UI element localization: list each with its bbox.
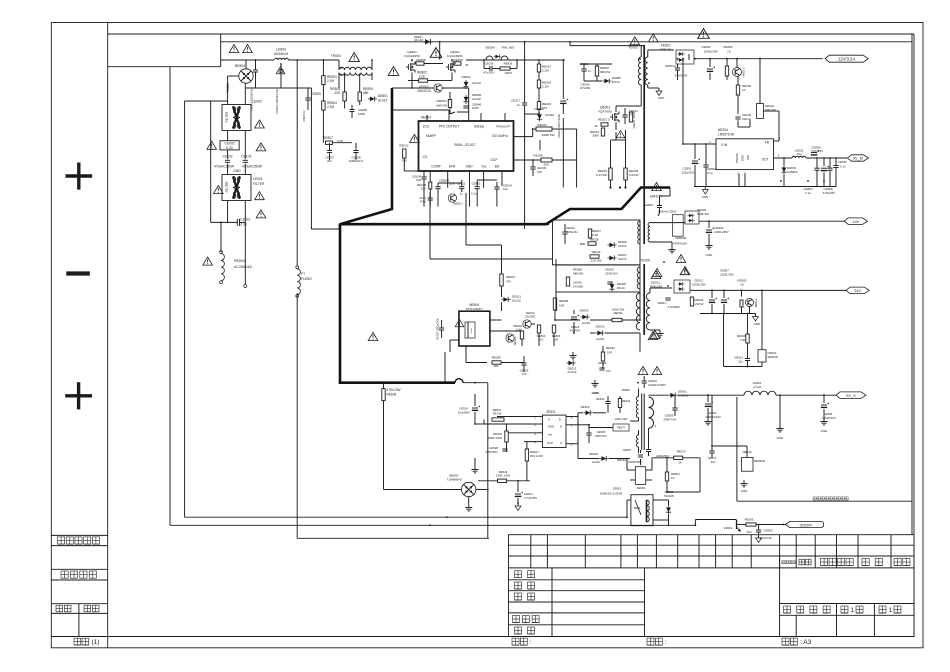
svg-text:AL002: AL002: [596, 337, 605, 341]
warning triangle CE002 left: [207, 141, 217, 149]
wire TE002 secondary to DE501: [648, 49, 674, 51]
diode DE817 RC-36 on B+ rail: [423, 39, 433, 45]
ground 14V transformer: [671, 242, 673, 246]
svg-text:AL01Z: AL01Z: [472, 97, 481, 101]
svg-text:47K: 47K: [506, 280, 511, 284]
svg-text:3300/250V: 3300/250V: [628, 460, 642, 464]
wire AC bottom bus 1: [185, 516, 627, 518]
svg-text:AL02Z: AL02Z: [582, 321, 591, 325]
capacitor CE102: [225, 159, 230, 161]
note 高电平工作 低电平待机 tiny: [813, 497, 816, 500]
bottom strip label 描图:: [647, 638, 654, 645]
capacitor CE001 0.33: [236, 219, 238, 226]
capacitor CE009 100: [421, 176, 426, 178]
svg-text:100: 100: [416, 178, 421, 182]
warning triangle RE012: [410, 134, 420, 142]
diode DE523 EU2A: [599, 456, 608, 461]
svg-text:TE005: TE005: [641, 259, 651, 263]
wire 24V sub bottom: [723, 314, 725, 367]
capacitor CE553 0.1u: [814, 167, 819, 169]
svg-text:IN4148: IN4148: [664, 494, 674, 498]
svg-text:CE025: CE025: [598, 361, 607, 365]
svg-text:Vcc: Vcc: [481, 165, 487, 169]
svg-text:LE803: LE803: [276, 48, 286, 52]
svg-text:LM2576-50: LM2576-50: [718, 133, 734, 137]
svg-text:220n: 220n: [742, 117, 749, 121]
svg-text:2.2M: 2.2M: [542, 84, 549, 88]
capacitor CE807 33n: [327, 150, 332, 152]
svg-text:RE807: RE807: [323, 136, 333, 140]
resistor RE808: [416, 62, 424, 65]
regulator NE510 RE565N: [742, 457, 754, 471]
capacitor CE565 10uF/16V: [756, 529, 761, 531]
capacitor CE045 100: [530, 166, 535, 168]
svg-text:TR004: TR004: [331, 54, 341, 58]
resistor RE816 100W: [500, 67, 510, 70]
svg-text:150K 1/2W: 150K 1/2W: [496, 474, 511, 478]
wire long vertical x524: [524, 42, 526, 103]
svg-text:CE819 450V/150u: CE819 450V/150u: [557, 114, 561, 138]
bottom strip label 幅面: A3: [782, 638, 789, 645]
opto ZE504: [635, 467, 645, 485]
resistor RE522: [618, 399, 621, 408]
wire 12V to regulator NE304: [682, 59, 684, 144]
capacitor CE563 33KF/1KV: [672, 407, 677, 409]
svg-text:12V/3.5A: 12V/3.5A: [838, 56, 855, 61]
diode DE561 1N5822: [668, 393, 677, 398]
svg-text:DD OutPut: DD OutPut: [492, 134, 508, 138]
svg-text:DE523: DE523: [589, 452, 598, 456]
diode DE009 AL02Z: [580, 314, 589, 319]
svg-text:PFMO/VP: PFMO/VP: [496, 125, 510, 129]
svg-text:FILTER: FILTER: [225, 181, 229, 192]
svg-text:22K: 22K: [334, 91, 341, 95]
left column box 旧底图总号: [51, 534, 107, 536]
capacitor CE808 100WVAu7: [353, 150, 358, 152]
resistor RE502 1K: [725, 66, 728, 76]
title block label 审核: [515, 582, 522, 589]
tag 5V_S output: [836, 392, 866, 399]
wire long vertical x576: [576, 129, 578, 188]
svg-text:RE565N: RE565N: [754, 459, 765, 463]
svg-text:33KF/1KV: 33KF/1KV: [663, 417, 676, 421]
title block label 批准: [515, 627, 522, 634]
svg-text:680R 1/4W: 680R 1/4W: [488, 436, 503, 440]
wire DE523 row: [577, 444, 579, 459]
capacitor CE502 2200u/35V: [707, 68, 713, 70]
capacitor C011 470n: [428, 197, 433, 199]
capacitor CE805 200/0.1n: [305, 97, 310, 99]
svg-text:100P: 100P: [358, 112, 365, 116]
resistor RE837 47K: [500, 274, 503, 286]
svg-text:2SA1213: 2SA1213: [417, 89, 431, 93]
ground CE565 arrow: [758, 535, 760, 538]
resistor RE503 1K: [736, 85, 739, 95]
diode DE802 AL01Z: [463, 80, 468, 89]
wire loop top-left notch: [220, 34, 222, 67]
svg-text:1K: 1K: [740, 283, 744, 287]
transistor N802-1: [448, 194, 456, 202]
opto N801-1: [506, 334, 514, 342]
resistor RE802 103K: [419, 79, 428, 82]
svg-text:VE561: VE561: [724, 526, 733, 530]
svg-text:CE805: CE805: [311, 92, 321, 96]
svg-text:RE090: RE090: [537, 123, 547, 127]
wire 5VS rail to inductor: [678, 394, 744, 396]
svg-text:33: 33: [465, 63, 469, 67]
capacitor CE013 0.1u: [475, 186, 480, 188]
wire QE003 drain to TE002: [615, 106, 617, 112]
resistor RE018 2.2M: [537, 80, 540, 88]
svg-text:RE809: RE809: [453, 58, 463, 62]
svg-text:CE012: CE012: [457, 182, 466, 186]
resistor RE820 68K/2W: [595, 66, 598, 76]
svg-text:22n: 22n: [738, 359, 743, 363]
svg-text:168/0.5W: 168/0.5W: [542, 133, 555, 137]
resistor RE834 2K2: [537, 325, 540, 333]
svg-text:RE565: RE565: [745, 518, 754, 522]
resistor RE524 150K 1/2W: [498, 479, 507, 482]
svg-text:470/280V: 470/280V: [668, 305, 680, 309]
capacitor CE804 450WV3.9u: [278, 69, 283, 71]
svg-text:RE098: RE098: [492, 356, 501, 360]
svg-text:68K/2W: 68K/2W: [573, 272, 584, 276]
regulator NE502 S8024N: [758, 350, 766, 362]
svg-text:1K: 1K: [671, 476, 675, 480]
svg-text:NE304: NE304: [718, 128, 728, 132]
svg-text:SAFETY: SAFETY: [650, 195, 663, 199]
resistor RE565 3K3: [746, 523, 756, 526]
svg-text:N802-1: N802-1: [453, 202, 463, 206]
wire AC vertical right: [244, 84, 246, 105]
svg-text:2.2M: 2.2M: [327, 79, 334, 83]
svg-text:ZCD: ZCD: [423, 125, 430, 129]
resistors RE026 RE025 to bus: [609, 168, 612, 180]
inductor LE561 4.7uH: [744, 391, 776, 395]
diode DE522: [583, 410, 592, 415]
svg-text:T1WB6040: T1WB6040: [446, 477, 461, 481]
svg-text:22n: 22n: [711, 460, 716, 464]
svg-text:TE002: TE002: [628, 46, 638, 50]
resistor RE091 100/0.5W: [612, 318, 622, 321]
svg-text:AL01Z: AL01Z: [618, 244, 627, 248]
svg-text:100WVAu7: 100WVAu7: [349, 159, 364, 163]
svg-text:2.2M: 2.2M: [327, 105, 334, 109]
wire loop vertical x170: [169, 67, 171, 526]
wire rail link: [439, 42, 441, 59]
resistor RE806 56K: [358, 92, 361, 101]
svg-text:1K: 1K: [727, 50, 731, 54]
ground mid standby: [474, 466, 476, 470]
svg-text:CE804: CE804: [644, 203, 654, 207]
tag ONOFF: [785, 521, 823, 527]
resistor RE575 100R 1/4W: [613, 424, 629, 431]
warning triangle QE001 mid: [430, 48, 442, 58]
svg-text:1N5822: 1N5822: [787, 170, 798, 174]
svg-text:DE009: DE009: [580, 309, 589, 313]
diode DE012 AL0GZ: [566, 360, 575, 365]
mosfet QE001 FQA24N50: [410, 63, 412, 71]
svg-text:2200u/35V: 2200u/35V: [714, 230, 729, 234]
svg-text:470/280V: 470/280V: [675, 74, 688, 78]
svg-text:F?: F?: [301, 272, 305, 276]
svg-text:2SC945: 2SC945: [525, 315, 536, 319]
diode DE551 1N5822: [781, 165, 786, 174]
svg-text:CE522: CE522: [596, 397, 605, 401]
warning triangles above bridge: [229, 45, 239, 53]
svg-text:RE022 G: RE022 G: [598, 118, 611, 122]
wire VE561 feed: [695, 519, 736, 521]
wire CE571 stub: [711, 395, 713, 446]
wire y101 to filter: [185, 100, 228, 102]
svg-text:RE8041: RE8041: [437, 99, 448, 103]
svg-text:CE027 680p/2KV: CE027 680p/2KV: [436, 318, 440, 340]
svg-text::: :: [530, 639, 532, 646]
svg-text:RE029: RE029: [592, 250, 601, 254]
bridge rectifier BE802 T1WB6040: [462, 482, 476, 496]
svg-text:CE503M: CE503M: [675, 236, 687, 240]
svg-text:(1): (1): [92, 639, 100, 646]
svg-text:GND: GND: [702, 195, 710, 199]
ground LE561: [779, 425, 781, 429]
warning triangle NE806 left: [368, 333, 378, 341]
wire B+ rail top: [221, 41, 912, 43]
wire PFC input rail: [221, 59, 246, 61]
wire NE801 to bus: [668, 519, 670, 525]
filter choke LE001: [222, 175, 251, 201]
ground CE521: [517, 503, 519, 506]
warning triangle safety barrier: [652, 183, 662, 191]
registration mark plus top: [77, 163, 80, 190]
wires mosfet stage: [392, 87, 434, 89]
transformer 24V windings: [636, 293, 640, 330]
svg-text:FML-36S: FML-36S: [502, 46, 515, 50]
ground 24V arrow: [755, 314, 757, 317]
resistor RE835 10K: [553, 298, 556, 310]
svg-text:GND: GND: [821, 429, 829, 433]
bridge rectifier BE804: [239, 69, 253, 83]
capacitor CE571 22n: [709, 450, 714, 452]
svg-text:FMB-26M: FMB-26M: [650, 285, 663, 289]
svg-text:2200L/35V: 2200L/35V: [692, 283, 706, 287]
svg-text:4.7uF/55V: 4.7uF/55V: [524, 496, 537, 500]
capacitor CE846 100P: [463, 105, 468, 107]
svg-text:MultFP: MultFP: [426, 134, 436, 138]
wire IC bottom pin stubs: [429, 171, 431, 182]
ground CE564: [823, 418, 825, 422]
svg-text:33n: 33n: [327, 159, 332, 163]
wire AC left leg inner: [210, 101, 212, 222]
svg-text:DFR: DFR: [449, 165, 456, 169]
resistor RE561 1K: [665, 472, 668, 481]
wire bus drop to bridge BE802: [487, 383, 489, 539]
inner frame top border: [108, 33, 914, 35]
svg-text:0.22: 0.22: [226, 146, 233, 150]
wire QE003 source: [615, 132, 617, 140]
svg-text:D: D: [560, 425, 562, 429]
svg-text:Startup: Startup: [474, 125, 485, 129]
svg-text:Vin: Vin: [548, 433, 553, 437]
svg-text:STR-W9667: STR-W9667: [466, 307, 483, 311]
resistor RE029 22/0.5W: [590, 255, 599, 258]
svg-text:47K: 47K: [542, 106, 547, 110]
title block label 拟制: [515, 571, 522, 578]
resistor RE527 3K3 1/4W: [525, 449, 528, 461]
svg-text:RE006: RE006: [533, 154, 543, 158]
capacitor CE103: [243, 159, 248, 161]
svg-text:220u/25V: 220u/25V: [682, 171, 694, 175]
resistor RE806b 10K: [552, 325, 555, 333]
fuse RE804 AC250V4A: [221, 254, 224, 281]
svg-text:JE801: JE801: [613, 487, 622, 491]
svg-text:200/0.1n: 200/0.1n: [302, 110, 306, 122]
resistor RE032 10K: [601, 352, 604, 361]
svg-text:FMB-26L: FMB-26L: [660, 48, 673, 52]
svg-text:2.2M: 2.2M: [542, 68, 549, 72]
wire IC top pins: [426, 115, 428, 121]
resistor RE015 10K: [429, 182, 432, 189]
wire mid vertical bus b: [465, 193, 467, 245]
svg-text:CS: CS: [423, 155, 427, 159]
svg-text:1u: 1u: [459, 192, 463, 196]
wire FB loop: [763, 110, 779, 112]
transformer TE006 primary windings: [636, 397, 638, 418]
wire fuse drop: [296, 60, 298, 266]
capacitor CE820 1n: [581, 68, 586, 70]
svg-text:DE004: DE004: [485, 46, 495, 50]
diode DE011 AL01Z: [501, 297, 510, 302]
capacitor CE524 22u/450V: [472, 407, 478, 409]
wire thick primary bus: [340, 88, 670, 224]
wires relay: [653, 499, 669, 501]
svg-text:FUSE2: FUSE2: [301, 277, 312, 281]
tag 14V output: [844, 218, 867, 225]
title block right section 等级标记 rows: [780, 603, 914, 605]
warning triangle CE001: [256, 210, 266, 218]
title block cell 第1张: [841, 606, 848, 613]
svg-text:RG1C: RG1C: [612, 80, 620, 84]
tag 5V_M output: [847, 155, 868, 161]
wire RE828 to bridge BE802: [384, 489, 462, 491]
capacitor CE562 1000u/F16V: [705, 403, 711, 405]
svg-text:56K: 56K: [363, 91, 370, 95]
title block label 工艺: [515, 593, 522, 600]
svg-text:RE032: RE032: [606, 346, 615, 350]
resistor RE027 6.9K: [588, 229, 591, 238]
svg-text:Cont: Cont: [470, 328, 473, 333]
svg-text:RE804: RE804: [234, 259, 245, 263]
capacitor CE036 47u/1KV: [489, 66, 491, 71]
warning triangle 14V: [676, 255, 686, 263]
junction dots thick bus: [391, 208, 393, 210]
svg-text:V IN: V IN: [721, 143, 728, 147]
inductor LE803 4A/180uH: [275, 58, 289, 60]
svg-text:470u/25V: 470u/25V: [823, 191, 835, 195]
snubber box 24V primary: [556, 265, 640, 292]
wire under-IC row: [438, 182, 462, 184]
svg-text:FQA7N80: FQA7N80: [598, 110, 612, 114]
warning triangle near fuse: [203, 257, 213, 265]
svg-text:CE565: CE565: [764, 529, 773, 533]
svg-text:22/1W: 22/1W: [695, 302, 704, 306]
wires standby section: [490, 319, 502, 321]
svg-text:56P/1KV: 56P/1KV: [595, 434, 606, 438]
wire long vertical x563: [562, 118, 564, 188]
wire ZE521 right pins: [577, 413, 579, 444]
svg-text:GND: GND: [465, 165, 473, 169]
svg-text:EU2A: EU2A: [592, 460, 600, 464]
registration mark minus: [66, 271, 90, 275]
svg-text:3K3 1/4W: 3K3 1/4W: [530, 454, 543, 458]
wire bottom box 5VS: [736, 397, 738, 501]
title block label 标准化: [513, 616, 520, 623]
capacitor CE564 100uF/16V: [821, 404, 827, 406]
svg-text:470n: 470n: [420, 200, 427, 204]
svg-text:5.6/1W: 5.6/1W: [629, 173, 639, 177]
svg-text:AL01Z: AL01Z: [472, 81, 481, 85]
wire RE561 bottom: [667, 491, 700, 493]
warning triangle LE001 left: [214, 186, 224, 194]
capacitor CE503 2200u/35V: [706, 229, 712, 231]
svg-text:68/0.5W: 68/0.5W: [436, 104, 447, 108]
inner frame bottom border: [51, 636, 914, 638]
wire RE837 feed: [466, 244, 502, 246]
svg-text:OUT: OUT: [762, 158, 769, 162]
svg-text:2200A/C250V: 2200A/C250V: [648, 383, 666, 387]
capacitor CE503M 470F/220V: [672, 215, 683, 237]
svg-text:RG1C: RG1C: [617, 286, 625, 290]
wire top 12V rail into TE002: [570, 45, 644, 47]
svg-text:10K: 10K: [559, 304, 564, 308]
svg-text:ON/OFF: ON/OFF: [800, 523, 813, 527]
svg-text:100W: 100W: [504, 71, 512, 75]
ground CE562: [707, 418, 709, 422]
ground TE002 secondary: [656, 87, 659, 89]
svg-text:470: 470: [522, 372, 527, 376]
svg-text:CE803 450WV3u: CE803 450WV3u: [250, 88, 254, 112]
svg-text:GND: GND: [777, 436, 785, 440]
resistor RE504 22/1W: [690, 297, 693, 306]
svg-text:0.33: 0.33: [240, 222, 247, 226]
svg-text:10p: 10p: [503, 187, 508, 191]
svg-text:RE828: RE828: [387, 393, 397, 397]
svg-text:1n: 1n: [517, 103, 521, 107]
svg-text:AC250V4A: AC250V4A: [234, 265, 252, 269]
svg-text:24V: 24V: [854, 289, 861, 293]
svg-text:SMA—E1017: SMA—E1017: [454, 143, 476, 147]
svg-text:PFC OUTPUT: PFC OUTPUT: [439, 125, 459, 129]
capacitor CE555 470u/25V: [821, 167, 827, 169]
svg-text:100R 1/4W: 100R 1/4W: [615, 417, 629, 421]
resistor RE525 680R 1/4W: [505, 431, 508, 442]
svg-text:CE013: CE013: [472, 182, 481, 186]
wire AC vertical left: [227, 76, 229, 105]
rail from B+ to DE004: [466, 59, 565, 61]
opto NE803 N804-2: [740, 300, 743, 307]
warning triangle LE001 right: [255, 192, 265, 200]
svg-text:1KV980: 1KV980: [573, 285, 584, 289]
svg-text:RE012: RE012: [399, 144, 409, 148]
svg-text:1R/1W: 1R/1W: [493, 412, 502, 416]
svg-text:N802-2: N802-2: [742, 67, 746, 77]
svg-text:1000u/F16V: 1000u/F16V: [705, 415, 721, 419]
svg-text:AL01Z: AL01Z: [378, 99, 387, 103]
diode DE801 AL01Z: [368, 96, 377, 101]
svg-text:2200u/35V: 2200u/35V: [704, 50, 719, 54]
capacitor CE819 450V/150u: [560, 100, 566, 102]
svg-text:100/0.5W: 100/0.5W: [612, 308, 625, 312]
resistor RE804b 2.2M: [322, 101, 325, 110]
